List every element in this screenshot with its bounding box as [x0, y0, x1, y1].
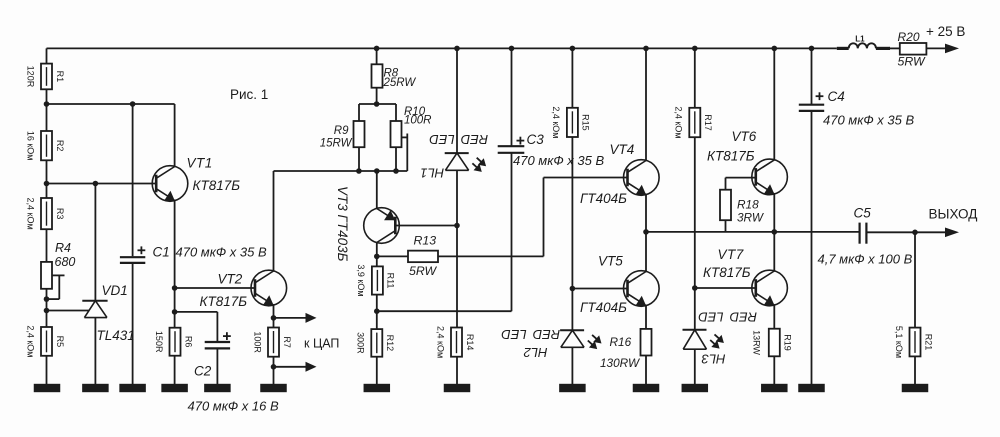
svg-text:R7: R7: [282, 336, 292, 348]
svg-text:2,4 кОм: 2,4 кОм: [25, 325, 35, 357]
svg-text:C4: C4: [828, 89, 845, 104]
svg-text:к ЦАП: к ЦАП: [304, 337, 339, 351]
svg-text:C3: C3: [527, 132, 545, 147]
svg-text:R14: R14: [465, 334, 475, 351]
svg-text:R19: R19: [783, 334, 793, 351]
svg-text:КТ817Б: КТ817Б: [200, 294, 248, 309]
svg-text:R2: R2: [55, 140, 65, 152]
svg-text:2,4 кОм: 2,4 кОм: [25, 198, 35, 230]
svg-text:RED LED: RED LED: [429, 132, 488, 147]
svg-text:470 мкФ х 16 В: 470 мкФ х 16 В: [188, 399, 279, 414]
svg-text:+ 25 В: + 25 В: [926, 24, 965, 39]
svg-text:L1: L1: [855, 35, 865, 44]
svg-text:C5: C5: [854, 206, 872, 221]
svg-text:680: 680: [55, 255, 76, 269]
svg-text:R12: R12: [385, 335, 395, 352]
svg-text:2,4 кОм: 2,4 кОм: [435, 326, 445, 358]
svg-text:470 мкФ х 35 В: 470 мкФ х 35 В: [176, 245, 267, 260]
svg-text:R5: R5: [55, 336, 65, 348]
svg-text:ГТ404Б: ГТ404Б: [580, 300, 627, 315]
svg-text:Рис. 1: Рис. 1: [230, 87, 268, 102]
svg-text:15RW: 15RW: [320, 138, 353, 150]
svg-text:470 мкФ х 35 В: 470 мкФ х 35 В: [823, 113, 914, 128]
svg-text:130RW: 130RW: [600, 356, 641, 370]
svg-text:R20: R20: [898, 30, 920, 44]
svg-text:R21: R21: [923, 334, 933, 351]
svg-text:16 кОм: 16 кОм: [25, 131, 35, 161]
svg-text:КТ817Б: КТ817Б: [707, 149, 755, 164]
svg-text:ГТ404Б: ГТ404Б: [580, 191, 627, 206]
svg-text:VT7: VT7: [718, 247, 744, 262]
svg-text:2,4 кОм: 2,4 кОм: [674, 106, 684, 138]
svg-text:300R: 300R: [356, 332, 366, 354]
svg-text:R16: R16: [610, 335, 632, 349]
svg-text:R4: R4: [55, 241, 71, 255]
svg-text:RED LED: RED LED: [698, 309, 757, 324]
svg-text:R6: R6: [183, 336, 193, 348]
svg-text:R3: R3: [55, 208, 65, 220]
svg-text:VD1: VD1: [102, 283, 128, 298]
svg-text:100R: 100R: [404, 115, 432, 127]
svg-text:HL3: HL3: [701, 352, 726, 367]
svg-text:КТ817Б: КТ817Б: [193, 178, 241, 193]
svg-text:VT1: VT1: [187, 156, 213, 171]
svg-text:C1: C1: [153, 245, 170, 260]
svg-text:5,1 кОм: 5,1 кОм: [894, 326, 904, 358]
svg-text:TL431: TL431: [97, 328, 135, 343]
svg-text:R13: R13: [414, 234, 437, 248]
svg-text:HL2: HL2: [523, 345, 548, 360]
svg-text:470 мкФ х 35 В: 470 мкФ х 35 В: [513, 153, 604, 168]
svg-text:VT6: VT6: [732, 129, 757, 144]
svg-text:R11: R11: [386, 273, 396, 289]
svg-text:25RW: 25RW: [383, 77, 417, 89]
svg-text:R1: R1: [55, 71, 65, 83]
svg-text:КТ817Б: КТ817Б: [703, 265, 751, 280]
svg-text:3,9 кОм: 3,9 кОм: [356, 264, 366, 296]
svg-text:VT3 ГТ403Б: VT3 ГТ403Б: [335, 186, 350, 262]
svg-text:RED LED: RED LED: [501, 327, 560, 342]
svg-text:ВЫХОД: ВЫХОД: [929, 207, 978, 222]
svg-text:C2: C2: [194, 364, 212, 379]
svg-text:13RW: 13RW: [752, 330, 762, 355]
svg-text:R15: R15: [581, 114, 591, 131]
svg-text:5RW: 5RW: [898, 54, 926, 68]
svg-text:VT5: VT5: [598, 254, 623, 269]
svg-text:4,7 мкФ х 100 В: 4,7 мкФ х 100 В: [818, 252, 913, 267]
svg-text:120R: 120R: [25, 66, 35, 88]
svg-text:2,4 кОм: 2,4 кОм: [551, 106, 561, 138]
svg-text:R17: R17: [703, 114, 713, 131]
svg-text:VT4: VT4: [610, 142, 635, 157]
svg-text:VT2: VT2: [218, 272, 243, 287]
svg-text:HL1: HL1: [420, 166, 444, 181]
svg-text:100R: 100R: [252, 331, 262, 353]
svg-text:R9: R9: [334, 125, 349, 137]
svg-text:5RW: 5RW: [409, 264, 437, 278]
svg-text:3RW: 3RW: [737, 211, 765, 225]
svg-text:150R: 150R: [154, 331, 164, 353]
svg-text:R18: R18: [737, 198, 759, 212]
